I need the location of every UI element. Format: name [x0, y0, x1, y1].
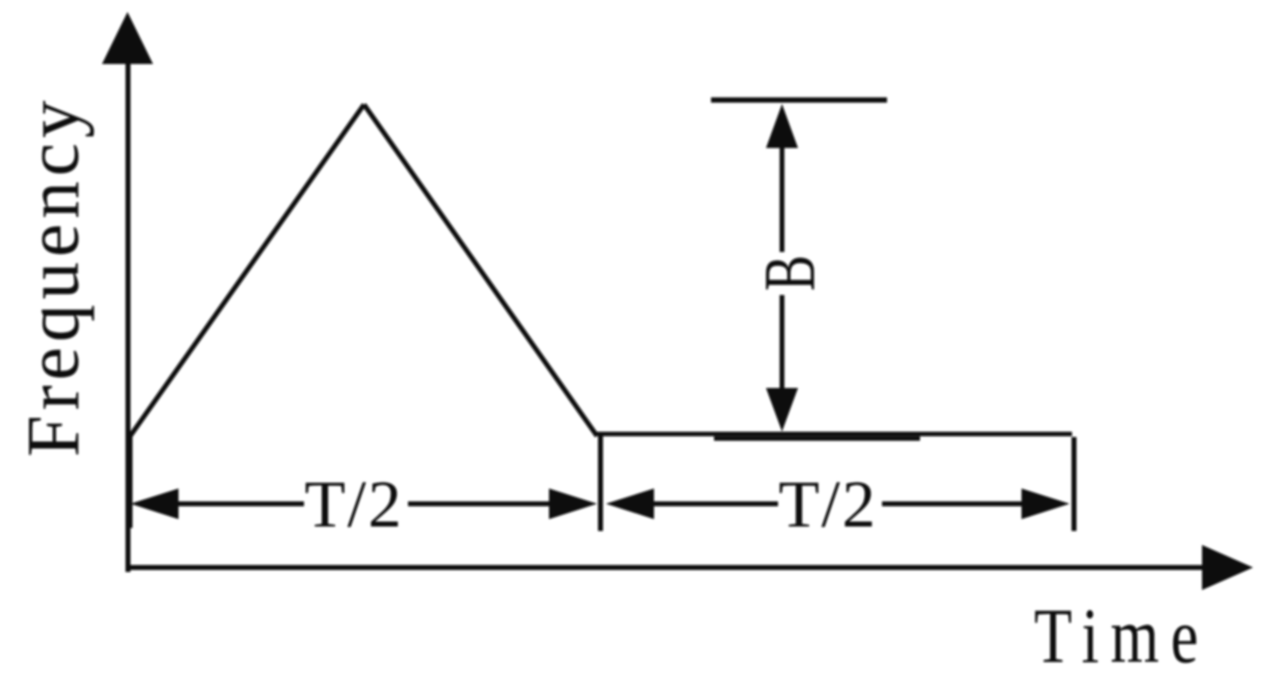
middle tick at t=T/2 [598, 436, 603, 531]
T/2 dimension 1: right arrow shaft [408, 501, 556, 506]
B dimension down arrowhead [766, 388, 798, 432]
tick on y-axis at T/2 boundary [128, 437, 133, 528]
x-axis (Time axis) line [126, 565, 1206, 570]
T/2 dimension 2: left arrowhead [606, 489, 654, 520]
B dimension top reference line [711, 97, 887, 102]
chirp rising edge [130, 105, 365, 438]
T/2 dimension 1: left arrow shaft [172, 501, 304, 506]
right tick at t=T [1072, 437, 1077, 531]
chirp constant-frequency segment [597, 432, 1072, 437]
chirp falling edge [364, 105, 597, 437]
y-axis arrowhead [102, 12, 153, 64]
T/2 dimension 2: right arrow shaft [882, 501, 1027, 506]
B dimension upper arrow shaft [780, 144, 785, 252]
T/2 dimension 1: right arrowhead [549, 489, 597, 520]
T/2 dimension 1: left arrowhead [131, 489, 179, 520]
T/2 dimension 2: right arrowhead [1022, 489, 1070, 520]
svg-text:B: B [749, 255, 830, 291]
svg-text:Time: Time [1034, 594, 1210, 680]
svg-text:T/2: T/2 [304, 468, 403, 542]
x-axis arrowhead [1202, 545, 1253, 590]
svg-text:Frequency: Frequency [12, 95, 95, 457]
B dimension lower arrow shaft [780, 295, 785, 392]
B dimension lower extension line [714, 436, 920, 440]
svg-text:T/2: T/2 [778, 468, 877, 542]
T/2 dimension 2: left arrow shaft [648, 501, 778, 506]
y-axis (Frequency axis) line [126, 58, 131, 572]
B dimension up arrowhead [766, 104, 798, 148]
